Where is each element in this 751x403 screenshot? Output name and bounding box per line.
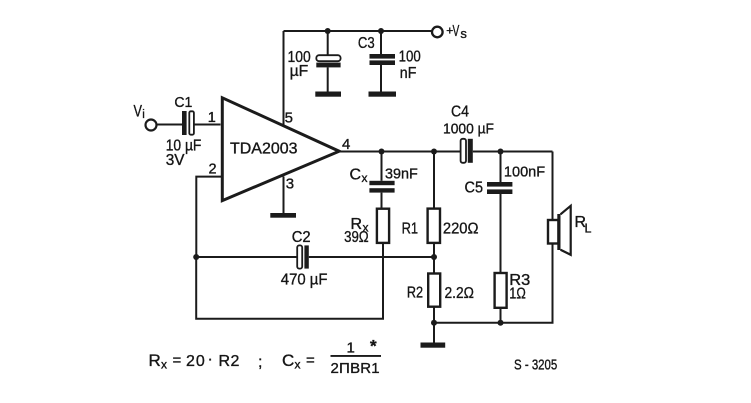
resistor R3 xyxy=(495,272,531,323)
capacitor Cx xyxy=(350,152,418,209)
svg-text:V: V xyxy=(453,23,460,40)
input terminal Vi xyxy=(134,102,157,131)
svg-text:C: C xyxy=(350,167,362,184)
capacitor C4 xyxy=(443,104,494,163)
capacitor C1 xyxy=(166,94,202,169)
svg-text:V: V xyxy=(134,102,143,121)
svg-text:R1: R1 xyxy=(402,220,419,237)
capacitor 100uF (supply bypass) xyxy=(288,31,341,92)
wire xyxy=(196,243,383,319)
wire xyxy=(196,177,221,257)
svg-text:3: 3 xyxy=(286,176,294,193)
ground xyxy=(315,92,341,97)
svg-text:;: ; xyxy=(258,354,262,371)
svg-text:C3: C3 xyxy=(358,35,375,52)
node xyxy=(431,149,437,155)
wire xyxy=(434,244,553,323)
svg-text:2: 2 xyxy=(209,162,217,178)
wire xyxy=(309,256,434,258)
svg-text:C1: C1 xyxy=(174,94,192,111)
speaker RL xyxy=(548,206,592,255)
wire xyxy=(196,256,297,258)
svg-text:1Ω: 1Ω xyxy=(509,286,526,303)
node xyxy=(498,149,504,155)
wire xyxy=(283,177,285,214)
svg-text:TDA2003: TDA2003 xyxy=(230,140,298,157)
svg-text:39nF: 39nF xyxy=(385,166,418,183)
svg-text:2ΠBR1: 2ΠBR1 xyxy=(331,360,380,377)
node xyxy=(431,320,437,326)
resistor Rx xyxy=(344,209,389,246)
svg-text:1: 1 xyxy=(208,110,216,126)
node xyxy=(431,254,437,260)
svg-text:L: L xyxy=(585,222,592,236)
node xyxy=(325,28,331,34)
resistor R2 xyxy=(407,257,474,323)
ground xyxy=(421,323,446,348)
svg-text:C2: C2 xyxy=(292,229,311,246)
node xyxy=(193,254,199,260)
svg-text:=: = xyxy=(306,352,315,369)
svg-text:20: 20 xyxy=(186,353,206,370)
formula Cx = 1/(2piBR1) xyxy=(282,337,381,378)
op-amp U1 TDA2003 xyxy=(222,98,339,201)
svg-text:1000 µF: 1000 µF xyxy=(443,121,494,138)
svg-text:5: 5 xyxy=(285,110,293,127)
svg-text:s: s xyxy=(460,26,467,41)
svg-text:470 µF: 470 µF xyxy=(281,272,328,289)
node xyxy=(378,28,384,34)
svg-text:3V: 3V xyxy=(166,152,185,169)
svg-text:39Ω: 39Ω xyxy=(344,229,369,246)
ground xyxy=(270,213,296,218)
node A xyxy=(379,149,385,155)
svg-text:C: C xyxy=(282,351,294,370)
svg-text:x: x xyxy=(295,358,301,372)
svg-text:i: i xyxy=(142,109,145,121)
svg-text:C4: C4 xyxy=(451,104,469,121)
wire xyxy=(283,31,285,126)
wire xyxy=(284,30,433,32)
node xyxy=(498,320,504,326)
svg-text:=: = xyxy=(173,352,182,369)
wire xyxy=(195,124,221,126)
svg-text:R: R xyxy=(149,351,161,370)
wire xyxy=(473,151,553,153)
svg-text:*: * xyxy=(370,337,377,356)
wire xyxy=(339,151,461,153)
wire xyxy=(158,124,183,126)
svg-text:1: 1 xyxy=(347,340,355,357)
capacitor C2 xyxy=(281,229,328,289)
svg-text:100nF: 100nF xyxy=(504,164,545,181)
svg-text:220Ω: 220Ω xyxy=(443,221,479,238)
svg-text:S - 3205: S - 3205 xyxy=(514,358,557,374)
resistor R1 xyxy=(402,152,479,258)
svg-text:x: x xyxy=(362,171,368,185)
svg-text:x: x xyxy=(161,358,167,372)
svg-text:C5: C5 xyxy=(465,180,484,197)
svg-text:·: · xyxy=(208,351,213,368)
svg-text:100: 100 xyxy=(399,49,421,66)
svg-text:4: 4 xyxy=(342,136,350,153)
capacitor C3 xyxy=(358,31,421,92)
capacitor C5 xyxy=(465,152,546,274)
wire xyxy=(552,152,554,221)
svg-text:2.2Ω: 2.2Ω xyxy=(445,285,475,302)
svg-text:µF: µF xyxy=(290,63,309,80)
formula Rx = 20 R2 xyxy=(149,351,263,372)
ground xyxy=(369,92,397,97)
svg-text:R2: R2 xyxy=(219,353,240,370)
svg-text:nF: nF xyxy=(400,65,417,82)
svg-text:R2: R2 xyxy=(407,285,423,302)
supply terminal +Vs xyxy=(432,23,467,41)
